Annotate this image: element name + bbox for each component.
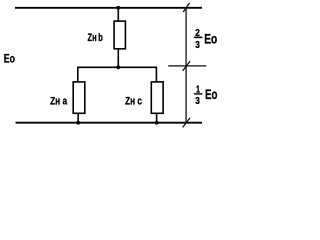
- wire: left branch down-lead: [77, 67, 79, 82]
- dimension line: vertical extension at right: [185, 8, 187, 123]
- label 1/3 Eo: fraction bar: [194, 93, 203, 95]
- node: Zнa junction with bottom rail: [76, 121, 80, 125]
- wire: Zнa bottom lead: [77, 113, 79, 122]
- node: Zнc junction with bottom rail: [155, 121, 159, 125]
- wire: top lead of Zнb: [117, 8, 119, 21]
- tick slash at bottom rail: [183, 118, 190, 128]
- node: junction of Zнb lead with top rail: [116, 6, 120, 10]
- wire: Zнc bottom lead: [156, 113, 158, 122]
- svg-text:Zн a: Zн a: [50, 96, 68, 108]
- dimension line: middle horizontal divider: [168, 65, 206, 67]
- resistor Zнb (load impedance, phase b): [114, 21, 125, 49]
- wire: bottom lead of Zнb down to parallel junction: [117, 49, 119, 68]
- resistor Zнc (load impedance, phase c): [151, 82, 163, 113]
- resistor Zнa (load impedance, phase a): [73, 82, 85, 113]
- wire: right branch down-lead: [155, 67, 157, 82]
- svg-text:Zн b: Zн b: [88, 32, 104, 44]
- tick slash at middle divider: [183, 61, 190, 71]
- svg-text:Eo: Eo: [205, 86, 217, 102]
- svg-text:3: 3: [195, 96, 200, 107]
- tick slash at top rail: [183, 3, 189, 12]
- svg-text:3: 3: [195, 40, 200, 51]
- wire: bottom rail (return bus): [16, 122, 203, 124]
- svg-text:Zн c: Zн c: [125, 96, 142, 108]
- label 2/3 Eo: fraction bar: [194, 36, 203, 38]
- wire: horizontal junction wire joining parallel branches: [77, 66, 157, 68]
- node: junction of Zнb lead with parallel wire: [116, 65, 120, 69]
- svg-text:Eo: Eo: [204, 30, 217, 46]
- wire: top rail (source Eo positive bus): [15, 7, 202, 9]
- svg-text:Eo: Eo: [4, 51, 15, 65]
